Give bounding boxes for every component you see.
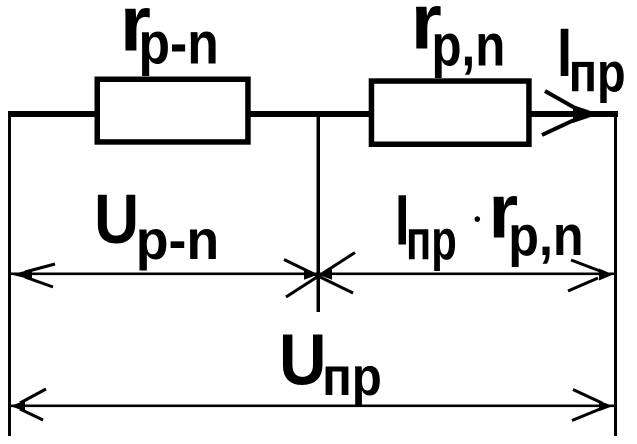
dim2 right arrow lower stroke [572, 409, 600, 421]
dim1 middle X stroke 1 [284, 260, 353, 294]
dim2 left arrowhead [10, 401, 25, 412]
label r_p,n main r [411, 0, 442, 66]
svg-text:пр: пр [322, 346, 382, 407]
dim1 middle left-pointing arrowhead [318, 269, 332, 279]
svg-text:p,n: p,n [508, 204, 583, 268]
dim2 right arrow upper stroke [573, 390, 602, 404]
label r_p-n main r [120, 0, 151, 67]
label U_pr subscript pr [322, 346, 382, 407]
label I_pr subscript pr [569, 41, 626, 104]
current arrow lower tail stroke [542, 120, 574, 135]
dim1 right arrow lower stroke [568, 278, 598, 291]
dim2 left arrow lower stroke [20, 409, 43, 420]
dimension line upper [8, 273, 616, 276]
label Ipr*rp,n subscript pr [406, 208, 457, 272]
resistor r_p-n [97, 79, 248, 142]
svg-text:p-n: p-n [136, 208, 220, 271]
dim1 middle right-pointing arrowhead [304, 269, 318, 279]
svg-text:пр: пр [569, 41, 626, 104]
resistor r_p,n [371, 81, 529, 144]
node middle vertical line [317, 114, 321, 312]
label Ipr*rp,n multiplication dot [475, 216, 481, 222]
svg-text:p-n: p-n [139, 10, 219, 76]
dim2 left arrow upper stroke [20, 389, 46, 403]
svg-text:p,n: p,n [431, 12, 505, 78]
label Ipr*rp,n main r [489, 169, 519, 255]
dim1 middle X stroke 2 [286, 253, 355, 298]
label r_p,n subscript p,n [431, 12, 505, 78]
label I_pr main I [557, 15, 572, 92]
svg-text:U: U [94, 181, 139, 259]
current arrow I_pr head [573, 105, 600, 123]
dim1 right arrow upper stroke [571, 260, 600, 271]
label r_p-n subscript p-n [139, 10, 219, 76]
dim2 right arrowhead [599, 401, 613, 412]
wire right segment [529, 111, 618, 117]
dim1 left arrow upper stroke [25, 264, 55, 272]
label U_p-n subscript p-n [136, 208, 220, 271]
current arrow upper tail stroke [545, 91, 575, 108]
svg-text:пр: пр [406, 208, 457, 272]
label Ipr*rp,n main I [395, 180, 410, 260]
dim1 left arrowhead [11, 269, 32, 279]
label U_pr main U [279, 319, 326, 399]
wire middle segment [247, 111, 372, 117]
label U_p-n main U [94, 181, 139, 259]
dim1 left arrow lower stroke [25, 277, 53, 287]
dimension line lower [8, 405, 616, 408]
svg-text:U: U [279, 319, 326, 399]
node left vertical line [8, 111, 11, 436]
node right vertical line [614, 114, 617, 436]
dim1 right arrowhead [599, 269, 613, 281]
wire left segment [8, 111, 98, 117]
label Ipr*rp,n subscript p,n [508, 204, 583, 268]
